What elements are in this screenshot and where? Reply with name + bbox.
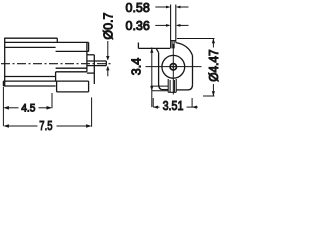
svg-text:0.58: 0.58 (126, 1, 150, 15)
body interior line low (5, 76, 56, 78)
left edge (158, 53, 160, 84)
pin top line (87, 60, 106, 62)
barrel bottom line (56, 71, 87, 73)
insulator top line (87, 54, 94, 56)
svg-text:Ø0.7: Ø0.7 (101, 12, 115, 39)
crosshair vertical (172, 44, 174, 95)
dim 4.5 line (5, 107, 51, 109)
0.58 dim line (155, 6, 188, 8)
top edge + 3.4 extension (138, 47, 170, 49)
centerline left view (1, 63, 111, 65)
leg right edge (88, 81, 90, 92)
crosshair horizontal (146, 66, 202, 68)
bottom tab (168, 79, 176, 92)
bottom edge (163, 89, 169, 91)
3.4 bottom extension line (152, 90, 168, 92)
inner ring (170, 64, 176, 70)
3.51 dim (152, 98, 154, 107)
barrel end face (86, 42, 88, 71)
phi4.47 dim line (212, 39, 214, 48)
0.36 dim line (155, 24, 188, 26)
body step vertical low (55, 72, 57, 81)
body left edge (4, 38, 6, 86)
svg-text:Ø4.47: Ø4.47 (207, 49, 220, 82)
bottom-right corner (188, 85, 193, 90)
body bottom edge (3, 85, 55, 87)
bottom-left corner (159, 84, 163, 90)
dim 7.5 line (5, 125, 91, 127)
top tab cap and inner walls (171, 41, 176, 49)
svg-text:3.4: 3.4 (129, 58, 143, 75)
phi0.7 leader arrows (107, 41, 109, 76)
top-left chamfer (156, 48, 158, 52)
3.4 dim line (vertical) + 3.51 left ext (151, 47, 153, 107)
insulator bottom line (87, 72, 94, 74)
barrel inner top line (56, 50, 89, 52)
body/barrel step vertical (56, 38, 58, 42)
flange left lip (2, 81, 4, 86)
phi4.47 bottom ext (203, 95, 215, 97)
center dot (172, 66, 174, 68)
svg-text:7.5: 7.5 (39, 119, 52, 133)
svg-text:0.36: 0.36 (126, 19, 150, 33)
svg-text:4.5: 4.5 (21, 103, 35, 115)
big circle (162, 55, 185, 78)
leg bottom edge (57, 91, 89, 93)
phi4.47 top ext (177, 38, 215, 40)
body top edge (5, 37, 58, 39)
small ext mark left of can (151, 85, 168, 87)
pin end face (105, 61, 107, 66)
barrel end outer vertical (88, 42, 90, 51)
dim 4.5 extension lines (3, 87, 52, 126)
top-right shoulder arc from tab (176, 43, 193, 56)
insulator face (93, 55, 95, 84)
flange top line (3, 80, 88, 82)
can outline (138, 43, 192, 90)
svg-text:3.51: 3.51 (163, 99, 184, 113)
3.4 ext stub above text (137, 43, 139, 49)
bore line under pin (56, 67, 87, 69)
right edge (192, 55, 194, 84)
pin bottom line (87, 65, 106, 67)
upper interior line 2 (5, 46, 56, 48)
tab extension walls (171, 5, 176, 49)
upper interior line 1 (5, 41, 89, 43)
leg left edge (56, 81, 58, 92)
dim 7.5 extension lines (91, 97, 93, 126)
